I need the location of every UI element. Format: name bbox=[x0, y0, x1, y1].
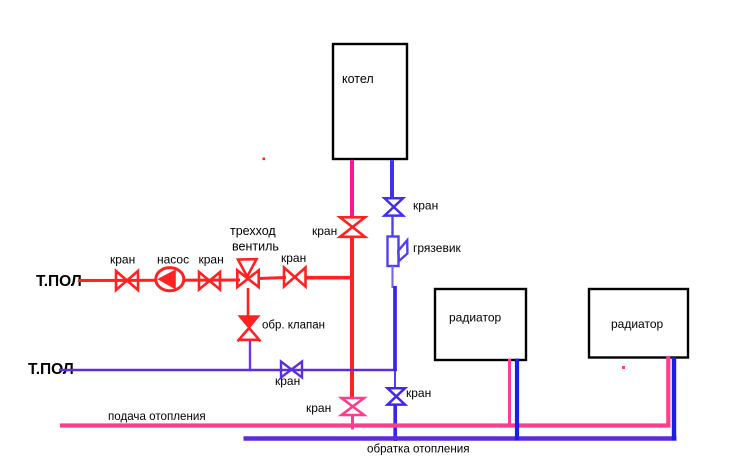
wire: blue vertical pipe to return junction bbox=[393, 286, 397, 371]
wire: thin violet stub below strainer bbox=[391, 266, 393, 288]
svg-text:грязевик: грязевик bbox=[413, 241, 462, 255]
valve кран K6 (blue, vertical) bbox=[388, 386, 432, 405]
svg-text:кран: кран bbox=[275, 374, 300, 388]
wire: blue stub from valve to strainer bbox=[391, 216, 393, 237]
wire: pink stub from valve K7 to supply main bbox=[351, 415, 354, 430]
wire: thin blue stub to valve K6 bbox=[394, 371, 396, 389]
wire: violet horizontal floor-heating return line bbox=[59, 369, 397, 371]
radiator 1 box bbox=[435, 289, 526, 360]
svg-text:обратка отопления: обратка отопления bbox=[367, 443, 470, 456]
wire: blue return pipe from boiler down bbox=[390, 160, 394, 198]
radiator 2 box bbox=[589, 289, 688, 358]
boiler box (котел) bbox=[333, 44, 407, 159]
svg-text:трехход: трехход bbox=[230, 224, 276, 238]
valve кран (vertical, red) on boiler supply bbox=[312, 217, 365, 238]
svg-text:кран: кран bbox=[306, 401, 331, 415]
stray pink dot bbox=[622, 366, 625, 369]
svg-text:кран: кран bbox=[110, 253, 135, 267]
valve кран K3 (red, right of three-way) bbox=[281, 251, 306, 287]
svg-text:кран: кран bbox=[406, 386, 431, 400]
wire: blue heating return main (обратка отопления) bbox=[244, 439, 677, 456]
stray red dot bbox=[263, 158, 266, 161]
node label Т.ПОЛ (supply to floor heating) bbox=[36, 273, 82, 290]
wire: red vertical pipe bbox=[350, 237, 354, 399]
svg-text:кран: кран bbox=[312, 224, 337, 238]
svg-text:кран: кран bbox=[199, 253, 224, 267]
wire: violet stub from check valve down bbox=[249, 341, 251, 370]
node label Т.ПОЛ (floor heating return) bbox=[28, 361, 74, 378]
wire: blue drop from radiator 1 bbox=[515, 359, 519, 441]
svg-text:кран: кран bbox=[413, 199, 438, 213]
svg-text:обр. клапан: обр. клапан bbox=[262, 320, 325, 332]
svg-text:подача отопления: подача отопления bbox=[108, 410, 206, 423]
wire: red horizontal floor-heating supply line bbox=[78, 278, 353, 281]
check valve обр. клапан bbox=[238, 316, 326, 341]
svg-text:насос: насос bbox=[157, 253, 189, 267]
valve кран K7 (pink, vertical on supply drop) bbox=[306, 398, 364, 415]
svg-text:Т.ПОЛ: Т.ПОЛ bbox=[36, 273, 82, 290]
svg-text:радиатор: радиатор bbox=[449, 311, 501, 325]
pump насос bbox=[156, 253, 189, 291]
svg-text:радиатор: радиатор bbox=[611, 317, 663, 331]
wire: pink drop to radiator 2 bbox=[666, 356, 670, 427]
svg-text:котел: котел bbox=[342, 72, 374, 86]
three-way valve трехход вентиль bbox=[230, 224, 279, 287]
strainer грязевик bbox=[388, 237, 462, 267]
wire: blue pipe from valve K6 to return main bbox=[393, 405, 397, 442]
valve кран K5 (blue, vertical below boiler) bbox=[385, 198, 439, 215]
valve кран K1 (red, left) bbox=[110, 253, 138, 291]
wire: pink heating supply main (подача отопления) bbox=[60, 410, 671, 426]
svg-text:вентиль: вентиль bbox=[232, 240, 279, 254]
wire: blue drop from radiator 2 bbox=[672, 357, 676, 440]
svg-text:кран: кран bbox=[281, 251, 306, 265]
wire: red stub from three-way valve down bbox=[247, 288, 250, 316]
valve кран K4 (violet, on return line) bbox=[275, 362, 302, 389]
wire: pink drop to radiator 1 bbox=[508, 359, 511, 428]
wire: pink supply pipe from boiler down bbox=[350, 160, 354, 217]
valve кран K2 (red, right of pump) bbox=[199, 253, 224, 290]
